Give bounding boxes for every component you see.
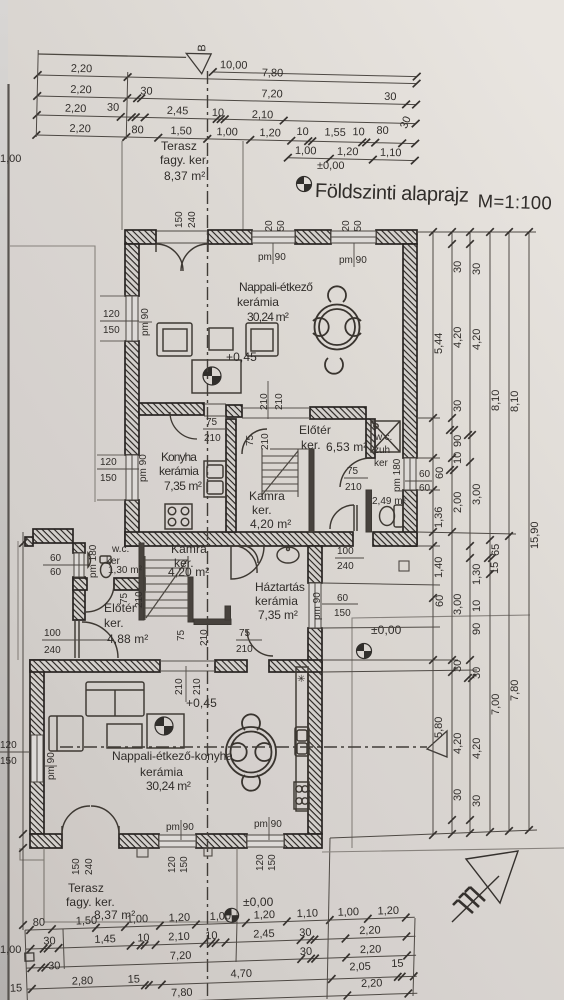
upper terrace outline	[121, 141, 123, 230]
svg-text:60: 60	[434, 595, 446, 607]
dim row1 bottom	[25, 917, 415, 930]
svg-text:kerámia: kerámia	[140, 765, 183, 779]
ticks c2 intermediate	[448, 240, 456, 248]
wc west wall lower	[73, 577, 85, 620]
svg-text:30,24 m²: 30,24 m²	[247, 310, 289, 324]
svg-text:7,00: 7,00	[490, 694, 502, 715]
svg-text:1,10: 1,10	[296, 907, 318, 920]
svg-text:210: 210	[174, 678, 185, 695]
dim row 1,00 / 1,20 / 1,10	[288, 158, 415, 161]
washbasin háztartás	[277, 547, 299, 563]
partition nook stub	[225, 606, 231, 620]
svg-text:4,20: 4,20	[471, 329, 483, 350]
svg-text:kerámia: kerámia	[237, 295, 279, 309]
svg-text:75: 75	[239, 628, 251, 639]
svg-text:2,20: 2,20	[65, 103, 87, 115]
kitchen sink lower	[295, 727, 309, 756]
svg-text:1,40: 1,40	[433, 557, 445, 578]
dim row 2,20 / 30 / 7,20 / 30	[37, 96, 416, 105]
svg-text:30: 30	[299, 927, 312, 939]
svg-text:4,20: 4,20	[471, 738, 483, 759]
konyha door arc	[170, 412, 197, 439]
svg-text:100: 100	[337, 546, 354, 557]
wc south wall	[73, 578, 87, 590]
svg-text:1,50: 1,50	[76, 915, 98, 928]
wall top NE segment	[376, 230, 417, 244]
svg-text:60: 60	[337, 593, 349, 604]
svg-text:4,20 m²: 4,20 m²	[250, 517, 291, 531]
armchair lower	[49, 716, 83, 751]
svg-text:1,55: 1,55	[324, 127, 346, 139]
wall right upper segment	[403, 244, 417, 458]
door 75/210 háztartás arc	[247, 630, 273, 656]
survey marker lower right	[357, 644, 372, 659]
row1 ticks	[26, 926, 34, 934]
post below bottom wall	[137, 848, 148, 857]
svg-text:30: 30	[452, 261, 464, 273]
kamra door arc	[242, 429, 267, 454]
svg-text:Előtér: Előtér	[299, 423, 331, 437]
scan left margin strip	[0, 0, 8, 1000]
dining table upper	[313, 286, 361, 373]
svg-text:3,00: 3,00	[471, 484, 483, 505]
svg-text:fagy. ker.: fagy. ker.	[66, 895, 115, 909]
wall bottom (shared) right part	[373, 532, 417, 546]
entrance door leaf and arc lower	[75, 621, 118, 658]
svg-text:150: 150	[71, 858, 82, 875]
svg-text:pm 90: pm 90	[312, 592, 323, 620]
svg-text:Nappali-étkező: Nappali-étkező	[239, 280, 313, 294]
svg-text:Konyha: Konyha	[161, 450, 197, 464]
partition wc/kamra lower	[139, 543, 144, 620]
svg-text:15: 15	[128, 973, 141, 985]
wall top lower-unit west part	[33, 529, 73, 543]
extension line bottom right	[330, 830, 537, 838]
partition kamra/háztartás lower	[188, 577, 193, 622]
left vertical chain lower	[22, 532, 24, 930]
chain line c5	[508, 232, 510, 831]
ticks c1 intermediate	[429, 414, 437, 422]
dim row 2,20 / 7,80	[38, 75, 417, 84]
svg-text:pm 180: pm 180	[392, 458, 403, 492]
partition háztartás nook horizontal	[194, 619, 231, 625]
svg-text:pm 90: pm 90	[166, 822, 194, 833]
porch edge line	[17, 541, 19, 660]
svg-text:4,70: 4,70	[230, 968, 252, 981]
svg-text:1,00: 1,00	[216, 126, 238, 138]
coffee table lower	[107, 724, 142, 748]
dim row 2,20 / 80 / 1,50 / 1,00 / 1,20 / 10 / 1,55 / 10 / 80	[36, 135, 415, 144]
svg-text:150: 150	[103, 325, 120, 336]
interior wall F east	[269, 660, 322, 672]
svg-text:30: 30	[107, 102, 120, 114]
opening 210 threshold wall F	[160, 661, 215, 671]
svg-text:150: 150	[267, 854, 278, 871]
chain line c3	[469, 232, 471, 833]
svg-text:1,36: 1,36	[433, 507, 445, 528]
stove 4 burners	[165, 504, 192, 529]
konyha door gap threshold	[204, 404, 226, 416]
wall east lower unit upper	[308, 546, 322, 583]
svg-text:pm 90: pm 90	[138, 454, 149, 482]
svg-text:7,80: 7,80	[171, 987, 193, 1000]
section marker A triangle	[427, 731, 447, 757]
wall top step	[25, 537, 33, 546]
tv board with marker	[192, 360, 241, 393]
svg-text:15: 15	[391, 958, 404, 970]
svg-text:120: 120	[255, 854, 266, 871]
window left 2	[126, 455, 138, 500]
svg-text:60: 60	[419, 483, 431, 494]
back door leaf and arc	[330, 505, 357, 531]
armchair 2	[246, 323, 278, 356]
svg-text:150: 150	[179, 856, 190, 873]
wall top mid segment	[208, 230, 252, 244]
svg-text:2,10: 2,10	[168, 931, 190, 944]
extension lines left windows	[97, 296, 125, 500]
north arrow	[452, 851, 518, 922]
svg-text:60: 60	[434, 467, 446, 479]
plot line right bottom	[322, 848, 564, 852]
svg-text:120: 120	[103, 309, 120, 320]
svg-text:7,80: 7,80	[262, 67, 284, 79]
svg-text:5,44: 5,44	[433, 333, 445, 354]
chain line c4	[489, 232, 491, 832]
interior wall F mid	[215, 660, 247, 672]
svg-text:2,49 m²: 2,49 m²	[372, 496, 407, 507]
window left nappali	[31, 735, 43, 782]
wall top between windows	[295, 230, 331, 244]
svg-text:100: 100	[44, 628, 61, 639]
wc door arc	[340, 458, 371, 487]
svg-text:2,20: 2,20	[70, 84, 92, 96]
svg-text:Terasz: Terasz	[68, 881, 104, 895]
svg-text:M=1:100: M=1:100	[477, 190, 552, 213]
opening 210 threshold in wall A	[242, 408, 310, 418]
ticks c5 intermediate	[505, 532, 513, 540]
svg-text:Kamra: Kamra	[171, 542, 207, 556]
svg-text:1,50: 1,50	[170, 125, 192, 137]
shower quarter circle háztartás	[231, 546, 264, 579]
svg-text:3,00: 3,00	[452, 594, 464, 615]
svg-text:120: 120	[0, 740, 17, 751]
svg-text:10: 10	[205, 930, 218, 942]
left chain verticals bottom	[25, 930, 27, 1000]
page edge line	[7, 84, 9, 1000]
extension line top right	[417, 231, 536, 233]
svg-text:+0,45: +0,45	[226, 350, 257, 364]
coffee table small	[209, 328, 233, 350]
ticks c4 intermediate	[486, 536, 494, 544]
svg-text:4,20 m²: 4,20 m²	[168, 565, 209, 579]
extension line right y546	[417, 545, 440, 547]
svg-text:Előtér: Előtér	[104, 601, 136, 615]
extension vertical bottom x330	[327, 838, 330, 999]
svg-text:8,10: 8,10	[509, 391, 521, 412]
wall top NW segment	[125, 230, 156, 244]
svg-text:10: 10	[137, 932, 150, 944]
svg-text:150: 150	[174, 211, 185, 228]
svg-text:4,20: 4,20	[452, 327, 464, 348]
svg-text:1,45: 1,45	[94, 933, 116, 946]
svg-text:±0,00: ±0,00	[243, 895, 274, 909]
wall left upper segment	[125, 244, 139, 296]
svg-text:10,00: 10,00	[220, 59, 248, 72]
partition kamra/előtér	[309, 449, 314, 532]
extension line right y418	[417, 417, 440, 419]
svg-text:Terasz: Terasz	[161, 139, 197, 153]
svg-text:2,20: 2,20	[69, 123, 91, 135]
tv board lower with marker	[147, 714, 184, 748]
svg-text:zuh: zuh	[374, 445, 390, 456]
terrace door double lower	[62, 806, 119, 834]
dim row 10,00	[213, 72, 417, 77]
svg-text:pm 90: pm 90	[254, 819, 282, 830]
svg-text:1,00: 1,00	[127, 913, 149, 926]
svg-text:Kamra: Kamra	[249, 489, 285, 503]
svg-text:2,45: 2,45	[253, 928, 275, 941]
svg-text:1,20: 1,20	[168, 912, 190, 925]
svg-text:210: 210	[274, 393, 285, 410]
svg-text:1,20: 1,20	[253, 909, 275, 922]
section marker B triangle	[186, 53, 211, 74]
wall left mid segment	[125, 341, 139, 455]
svg-text:1,10: 1,10	[380, 147, 402, 159]
section dash-dot horizontal A	[60, 746, 427, 748]
extension line right y532	[417, 532, 516, 534]
window top 2	[331, 231, 376, 243]
svg-text:1,20: 1,20	[259, 127, 281, 139]
svg-text:30: 30	[48, 960, 61, 972]
ticks chains top	[429, 228, 437, 236]
post2 below bottom wall	[204, 848, 212, 856]
svg-text:8,37 m²: 8,37 m²	[164, 169, 205, 183]
wc washbasin semicircle	[88, 553, 91, 567]
svg-text:210: 210	[260, 433, 271, 450]
svg-text:10: 10	[212, 107, 225, 119]
svg-text:240: 240	[84, 858, 95, 875]
svg-text:B: B	[196, 44, 208, 52]
svg-text:2,45: 2,45	[167, 105, 189, 117]
svg-text:80: 80	[131, 124, 144, 136]
svg-text:6,53 m²: 6,53 m²	[326, 440, 367, 454]
svg-text:75: 75	[176, 629, 187, 641]
svg-text:7,35 m²: 7,35 m²	[258, 608, 298, 622]
entrance double door arcs	[156, 244, 208, 271]
extension line right y660	[322, 659, 458, 661]
survey marker bottom	[224, 908, 238, 922]
svg-text:210: 210	[192, 678, 203, 695]
svg-text:ker.: ker.	[252, 503, 272, 517]
svg-text:2,00: 2,00	[452, 492, 464, 513]
row4 ticks	[28, 985, 36, 993]
stairs lower	[145, 556, 188, 620]
svg-text:2,20: 2,20	[361, 977, 383, 990]
dim row2 bottom	[26, 936, 416, 949]
dim row3 bottom	[26, 955, 416, 968]
dim row4 bottom	[27, 976, 417, 989]
sofa lower	[86, 682, 144, 716]
interior wall F west	[30, 660, 160, 672]
survey marker at title	[297, 177, 312, 192]
interior wall A stub	[226, 405, 242, 417]
svg-text:7,80: 7,80	[509, 680, 521, 701]
svg-text:2,80: 2,80	[72, 975, 94, 988]
svg-text:ker: ker	[374, 458, 389, 469]
svg-text:2,10: 2,10	[252, 109, 274, 121]
extension line right y628	[322, 627, 440, 628]
extension line right y490	[417, 489, 440, 491]
wall bottom (shared) left part	[125, 532, 353, 546]
row3 ticks	[27, 964, 35, 972]
svg-text:90: 90	[452, 435, 464, 447]
svg-text:150: 150	[0, 756, 17, 767]
wall east lower unit lower	[308, 628, 322, 834]
window left wc (pm180)	[74, 553, 84, 577]
partition wc west lower	[366, 490, 372, 532]
svg-text:30: 30	[471, 667, 483, 679]
svg-text:150: 150	[100, 473, 117, 484]
section dash-dot vertical B	[207, 71, 209, 1000]
step post outside back door	[399, 561, 409, 571]
svg-text:4,88 m²: 4,88 m²	[107, 632, 148, 646]
svg-text:8,10: 8,10	[490, 390, 502, 411]
shower box wc	[371, 421, 400, 452]
svg-text:1,00: 1,00	[295, 145, 317, 157]
extension vertical bottom x415	[413, 918, 415, 996]
extension vertical bottom x237 terrace	[236, 922, 237, 962]
svg-text:30: 30	[452, 400, 464, 412]
svg-text:pm 90: pm 90	[339, 255, 367, 266]
svg-text:7,20: 7,20	[261, 88, 283, 100]
svg-text:±0,00: ±0,00	[371, 623, 402, 637]
window right wc	[404, 458, 416, 490]
svg-text:240: 240	[337, 561, 354, 572]
interior wall A west	[139, 403, 204, 415]
wall bottom seg3	[196, 834, 247, 848]
svg-text:1,20: 1,20	[337, 146, 359, 158]
svg-text:30: 30	[43, 935, 56, 947]
wc door arc lower	[86, 584, 114, 612]
svg-text:30: 30	[452, 789, 464, 801]
svg-text:60: 60	[419, 469, 431, 480]
plot boundary line top-left	[9, 246, 95, 502]
window bottom 1	[159, 835, 196, 847]
svg-text:10: 10	[471, 600, 483, 612]
terrace outline lower	[44, 848, 237, 922]
svg-text:7,35 m²: 7,35 m²	[164, 479, 202, 493]
window right háztartás	[309, 583, 321, 628]
svg-text:80: 80	[376, 125, 389, 137]
armchair 1	[157, 323, 192, 356]
svg-text:1,30 m²: 1,30 m²	[108, 565, 143, 576]
svg-text:1,00: 1,00	[337, 906, 359, 919]
toilet lower wc	[100, 556, 112, 578]
svg-text:kerámia: kerámia	[255, 594, 298, 608]
svg-text:120: 120	[100, 457, 117, 468]
window bottom 2	[247, 835, 284, 847]
interior wall A east	[310, 407, 366, 419]
wall left lower segment	[125, 500, 139, 546]
svg-text:1,30: 1,30	[471, 564, 483, 585]
extension line right y458	[417, 457, 440, 459]
svg-text:65: 65	[490, 544, 502, 556]
svg-text:2,05: 2,05	[349, 961, 371, 974]
svg-text:90: 90	[471, 623, 483, 635]
svg-text:15,90: 15,90	[529, 521, 541, 549]
svg-text:ker.: ker.	[104, 616, 124, 630]
svg-text:2,20: 2,20	[360, 943, 382, 956]
svg-text:15: 15	[489, 562, 501, 574]
svg-text:60: 60	[50, 567, 62, 578]
extension line right y674	[322, 670, 477, 672]
window top 1	[252, 231, 295, 243]
extension vertical x128 top-left	[126, 72, 128, 139]
svg-text:✳: ✳	[297, 674, 305, 685]
svg-text:±0,00: ±0,00	[317, 160, 344, 172]
svg-text:210: 210	[204, 433, 221, 444]
title Földszinti alaprajz M=1:100	[314, 180, 552, 213]
toilet upper wc	[380, 505, 404, 527]
ticks c3 intermediate	[466, 240, 474, 248]
svg-text:pm 90: pm 90	[258, 252, 286, 263]
dim row 2,20 / 30 / 2,45 / 10 / 2,10 / 30	[37, 115, 416, 124]
svg-text:210: 210	[236, 644, 253, 655]
svg-text:7,20: 7,20	[170, 950, 192, 963]
svg-text:120: 120	[167, 856, 178, 873]
chain line c2	[451, 232, 453, 834]
dim row5 bottom	[28, 993, 418, 1000]
kitchen sink counter	[204, 461, 226, 497]
wall right lower segment	[403, 490, 417, 546]
svg-text:30: 30	[140, 85, 153, 97]
wall bottom SE corner	[284, 834, 322, 848]
svg-text:10: 10	[296, 126, 309, 138]
wc west wall upper	[73, 543, 85, 553]
svg-text:Nappali-étkező-konyha: Nappali-étkező-konyha	[112, 749, 233, 763]
svg-text:1,00: 1,00	[0, 944, 21, 956]
svg-text:pm 180: pm 180	[88, 544, 99, 578]
extension vertical x38 top-left	[36, 50, 38, 137]
svg-text:75: 75	[245, 434, 256, 446]
terrace step lower	[20, 848, 44, 860]
svg-text:30: 30	[452, 660, 464, 672]
svg-text:+0,45: +0,45	[186, 696, 217, 710]
wall west of nappali	[30, 660, 44, 834]
entrance threshold lines	[156, 231, 208, 243]
interior wall wc west upper	[366, 419, 375, 458]
svg-text:30,24 m²: 30,24 m²	[146, 779, 191, 793]
svg-text:150: 150	[334, 608, 351, 619]
svg-text:30: 30	[471, 263, 483, 275]
chain line c1	[432, 232, 434, 835]
svg-text:210: 210	[199, 629, 210, 646]
svg-text:10: 10	[452, 452, 464, 464]
svg-text:60: 60	[50, 553, 62, 564]
svg-text:75: 75	[347, 466, 359, 477]
svg-text:1,00: 1,00	[0, 153, 21, 165]
svg-text:15: 15	[10, 982, 23, 994]
svg-text:kerámia: kerámia	[159, 464, 199, 478]
svg-text:80: 80	[33, 917, 46, 929]
svg-text:2,20: 2,20	[359, 924, 381, 937]
svg-text:4,20: 4,20	[452, 733, 464, 754]
svg-text:30: 30	[300, 946, 313, 958]
svg-text:240: 240	[44, 645, 61, 656]
svg-text:210: 210	[345, 482, 362, 493]
row2 ticks	[27, 945, 35, 953]
stairs upper	[262, 449, 310, 497]
